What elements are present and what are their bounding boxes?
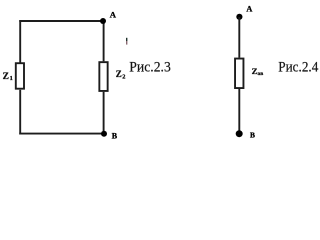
wire left upper (fig 2.3)	[19, 20, 21, 62]
svg-text:B: B	[250, 130, 255, 139]
node B (fig 2.3)	[101, 131, 107, 137]
wire top (node A to top-left corner, fig 2.3)	[19, 20, 103, 22]
wire left lower (fig 2.3)	[19, 90, 21, 135]
node A (fig 2.3)	[100, 18, 106, 24]
text cursor tick	[126, 38, 127, 41]
svg-text:A: A	[110, 10, 117, 20]
impedance Z1 box	[16, 63, 24, 88]
node B (fig 2.4)	[236, 130, 243, 137]
wire right lower (Z2 down to node B, fig 2.3)	[103, 92, 105, 134]
wire lower (Zab down to node B, fig 2.4)	[238, 89, 240, 134]
wire bottom (bottom-left corner to node B, fig 2.3)	[19, 133, 104, 135]
impedance Z2 box	[99, 62, 107, 91]
node A (fig 2.4)	[236, 14, 242, 20]
svg-text:B: B	[112, 131, 118, 140]
wire upper (node A down to Zab, fig 2.4)	[238, 17, 240, 58]
svg-text:A: A	[246, 5, 252, 14]
svg-text:Рис.2.4: Рис.2.4	[278, 60, 318, 76]
impedance Zab box	[235, 59, 243, 89]
svg-text:Рис.2.3: Рис.2.3	[129, 60, 171, 76]
wire right upper (node A down to Z2, fig 2.3)	[103, 21, 105, 61]
